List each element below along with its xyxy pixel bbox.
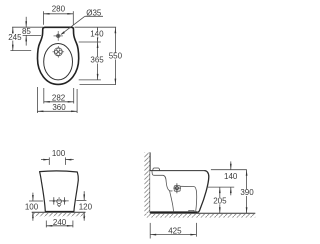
plan right extension lines [75, 27, 117, 84]
svg-text:390: 390 [240, 188, 254, 197]
plan view: bidet outer outline [38, 27, 79, 84]
dimension 365 (plan right) [97, 42, 99, 80]
side view: wall line [149, 152, 151, 213]
dimension 85 (plan, top edge to tap hole) [12, 26, 43, 28]
plan view: drain symbol [53, 46, 65, 58]
svg-text:Ø35: Ø35 [86, 8, 102, 17]
svg-text:140: 140 [90, 29, 104, 38]
side view: drain fixture [174, 186, 180, 192]
svg-text:425: 425 [168, 226, 182, 235]
side view: wall hatching [144, 152, 150, 213]
svg-text:360: 360 [52, 103, 66, 112]
dimension 280 (plan top width) [44, 11, 74, 25]
svg-text:550: 550 [109, 52, 123, 61]
side view: tap boss on rim [153, 168, 160, 171]
dimension 425 (side depth) [150, 223, 196, 239]
dimension 205 (side, drain to floor) [219, 187, 221, 213]
side view: inner water line and front inner face [180, 186, 196, 212]
side view: floor hatching [144, 214, 255, 218]
svg-text:240: 240 [53, 218, 67, 227]
dimension 245 (plan, top edge to drain centre) [10, 50, 31, 52]
side view: trap/drain interior line [170, 191, 174, 213]
svg-text:120: 120 [79, 202, 93, 211]
front view: ground line [32, 211, 86, 213]
svg-text:365: 365 [90, 56, 104, 65]
dimension 100 (front top) [41, 157, 74, 165]
front view: body outline [40, 171, 79, 212]
side view: bowl interior profile [152, 171, 173, 191]
front view: base bottom edge [45, 211, 74, 213]
side view: drain fixture crosshair [176, 183, 178, 193]
svg-text:282: 282 [52, 94, 66, 103]
dimension 282 (plan inner bowl width) [44, 88, 74, 104]
side view: floor line [150, 212, 255, 214]
svg-text:100: 100 [52, 149, 66, 158]
dimension 390 (side overall height) [246, 170, 248, 214]
label Ø35 with leader to tap hole [61, 16, 85, 34]
dimension 100 (front left height) [29, 200, 43, 202]
dimension 240 (front base width) [46, 221, 73, 228]
side view extension lines [207, 170, 247, 187]
front view: ground hatching [32, 213, 86, 217]
svg-text:245: 245 [8, 33, 22, 42]
dimension 360 (plan outer bowl width) [37, 87, 77, 113]
side view: bidet body outline [150, 171, 209, 213]
dimension 550 (plan overall length) [114, 27, 116, 84]
plan view: tap hole crosshair [54, 31, 63, 41]
svg-text:140: 140 [224, 172, 238, 181]
front view: drain and fixing holes group [49, 197, 68, 206]
dimension 140 (side, rim to drain) [230, 161, 232, 169]
dimension 120 (front right height) [76, 199, 86, 201]
svg-text:85: 85 [22, 27, 31, 36]
svg-text:280: 280 [52, 5, 66, 14]
plan view: inner bowl rim oval [44, 44, 73, 80]
side view: base bottom edge [150, 211, 197, 213]
svg-text:100: 100 [25, 203, 39, 212]
side view: base outlet detail [189, 210, 194, 212]
svg-text:205: 205 [213, 197, 227, 206]
dimension 140 (plan right) [97, 27, 99, 42]
